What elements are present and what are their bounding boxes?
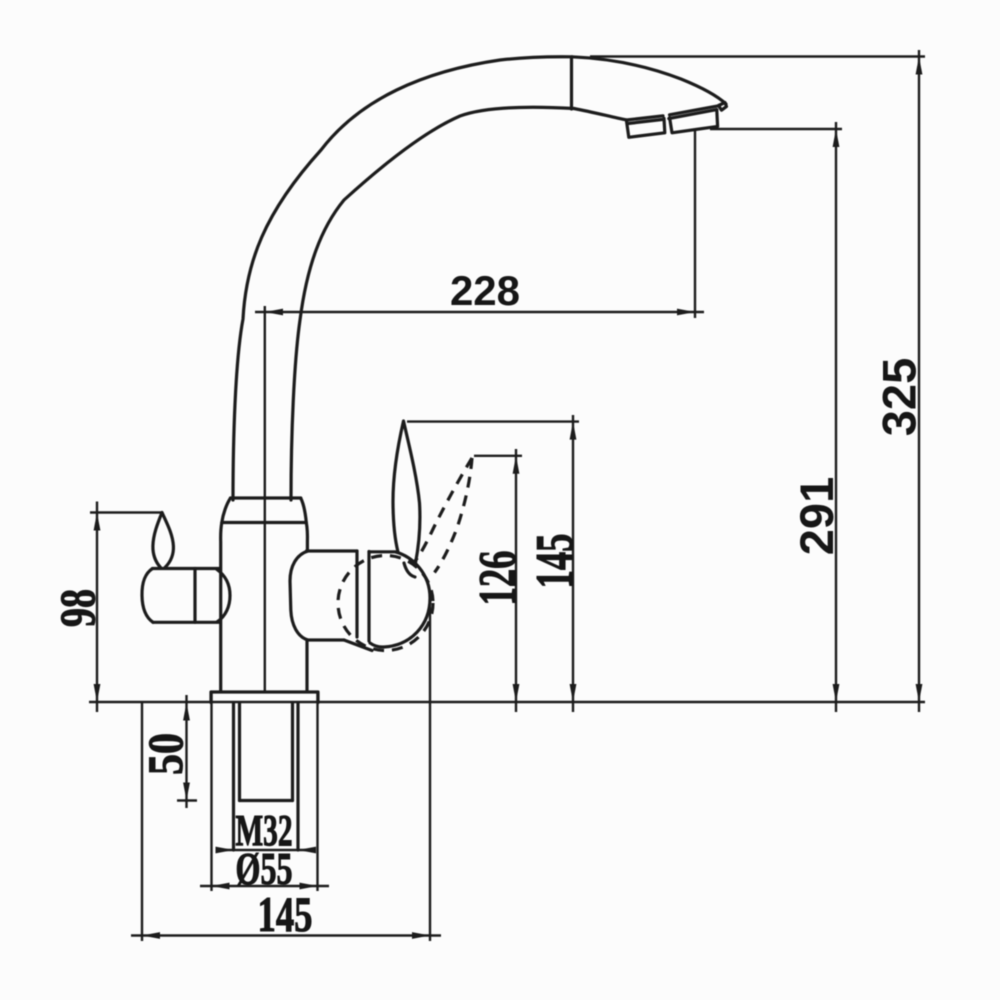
dim 145v top arrow <box>570 422 577 440</box>
right boss bottom edge <box>308 638 344 641</box>
svg-text:145: 145 <box>526 534 584 589</box>
left handle lever <box>153 513 174 568</box>
dim 325 line <box>918 50 920 712</box>
body collar right shoulder <box>301 498 307 523</box>
dim 145b left extension <box>141 702 143 941</box>
svg-text:325: 325 <box>873 358 926 436</box>
dim 325 top arrow <box>916 57 923 75</box>
main lever dashed <box>414 458 472 573</box>
svg-text:228: 228 <box>450 267 520 314</box>
aerator right plate <box>670 110 718 132</box>
dim 98 line <box>96 502 98 713</box>
svg-text:145: 145 <box>258 886 313 942</box>
dim 50 bottom arrow <box>183 783 190 801</box>
dim 98 bottom arrow <box>94 684 101 702</box>
dim 50 line <box>185 695 187 808</box>
head divider line <box>570 57 573 109</box>
left handle body bottom <box>153 621 220 624</box>
dim 325 bottom arrow <box>916 684 923 702</box>
dim 228 left arrow <box>265 309 283 316</box>
dim 126 extension top <box>474 455 522 457</box>
threaded pipe outer left <box>232 703 235 850</box>
left handle body top <box>153 567 221 570</box>
dim 145b left arrow <box>142 932 160 939</box>
dim 50 top arrow <box>183 703 190 721</box>
dim 291 bottom arrow <box>833 684 840 702</box>
dim 98 top arrow <box>94 513 101 531</box>
threaded pipe outer right <box>296 703 299 850</box>
dim 228 right arrow <box>677 309 695 316</box>
ball solid outline <box>369 552 430 647</box>
dim 291 top arrow <box>833 129 840 147</box>
dim 145v line <box>572 415 574 712</box>
dim M32 left arrow <box>216 847 234 854</box>
dim D55 right extension <box>316 692 318 891</box>
dim 291 extension top <box>710 128 842 130</box>
svg-text:98: 98 <box>49 589 105 627</box>
right boss top edge <box>307 549 358 552</box>
spout head top edge <box>572 57 726 104</box>
dim D55 line <box>200 885 329 887</box>
threaded pipe bottom <box>240 799 293 802</box>
dim 145b line <box>131 934 441 936</box>
svg-text:50: 50 <box>137 733 193 775</box>
dim M32 right arrow <box>298 847 316 854</box>
main lever solid <box>393 421 420 563</box>
body collar top <box>231 496 301 499</box>
dim D55 left extension <box>210 692 212 891</box>
dim 145b right arrow <box>412 932 430 939</box>
ring right line <box>367 552 370 642</box>
spout tip cap <box>719 103 727 111</box>
dim 291 line <box>835 122 837 712</box>
body right edge lower <box>305 640 308 691</box>
dim 126 bottom arrow <box>513 684 520 702</box>
svg-text:126: 126 <box>469 551 527 606</box>
dim 50 bottom extension <box>177 799 197 801</box>
dim 145b right extension <box>429 607 431 941</box>
body collar left shoulder <box>222 498 231 523</box>
head bottom edge <box>574 109 627 121</box>
boss to ball lower joint <box>344 640 372 651</box>
spout outer curve <box>233 57 572 500</box>
svg-text:291: 291 <box>790 477 843 555</box>
aerator left plate <box>626 118 664 137</box>
body collar bottom line <box>222 521 306 524</box>
dim 98 extension top <box>90 511 163 513</box>
baseline (counter level) <box>89 701 925 703</box>
dim D55 left arrow <box>212 883 230 890</box>
dim 228 line <box>255 311 704 313</box>
left handle flange arc <box>217 570 230 623</box>
dim 126 top arrow <box>513 456 520 474</box>
dim D55 right arrow <box>300 883 318 890</box>
lever hub <box>404 563 415 577</box>
dim 228 left extension <box>264 306 266 691</box>
dim 145v bottom arrow <box>570 684 577 702</box>
head rim upper <box>627 106 720 120</box>
dim 145v extension top <box>407 420 579 422</box>
body left edge <box>221 523 222 692</box>
head rim lower <box>628 110 717 124</box>
base plate <box>211 692 318 703</box>
dim M32 line <box>222 849 309 851</box>
left handle end cap <box>142 569 153 623</box>
threaded pipe inner right <box>291 703 294 801</box>
threaded pipe inner left <box>238 703 241 801</box>
dim 228 right extension <box>694 131 696 318</box>
ball dashed circle <box>338 556 433 651</box>
dim 126 line <box>515 449 517 712</box>
left handle divider <box>193 569 196 623</box>
boss rounded left profile <box>290 551 308 640</box>
body right edge upper <box>306 523 307 552</box>
dim 325 extension top <box>590 55 925 57</box>
ring left line <box>355 551 358 637</box>
spout inner curve <box>291 107 574 500</box>
